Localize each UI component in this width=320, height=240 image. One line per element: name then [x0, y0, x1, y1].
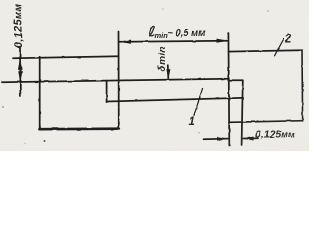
subtle vignette shading — [0, 0, 309, 151]
paper grain overlay — [0, 0, 1, 1]
left contact pad left edge — [39, 57, 41, 130]
contact pad 2 top edge — [229, 50, 303, 51]
left contact pad right edge with upward extension line for dimension — [118, 32, 120, 130]
lead (element 1) right end edge with downward extension line — [242, 80, 243, 145]
vertical dimension line 0,125 mm (left) — [19, 47, 21, 97]
contact pad 2 left edge with up and down extension lines — [227, 33, 230, 146]
faint scan smudge top right — [267, 10, 269, 12]
arrowhead of bottom dimension pointing right at lead edge — [217, 137, 228, 141]
faint speck below left pad — [24, 143, 25, 144]
lead (element 1) left end edge — [106, 81, 108, 102]
dimension line 0,125 mm (bottom) right segment — [243, 137, 259, 139]
dimension line l min ~ 0,5 mm (top) — [120, 41, 229, 42]
contact pad 2 right edge — [301, 50, 304, 121]
leader line for label 2 — [275, 39, 285, 56]
label: script l of top dimension text — [150, 26, 155, 35]
faint scan speck right of lead — [198, 132, 199, 133]
dimension line 0,125 mm (bottom) left segment — [204, 138, 228, 141]
arrowhead of left dimension pointing up — [18, 58, 22, 69]
lead (element 1) top edge overlap segment on pad 2 — [228, 79, 243, 81]
scan speck near bottom of pad 1 — [44, 140, 46, 142]
arrowhead right of top dimension pointing right — [217, 39, 229, 43]
faint speck left margin — [2, 106, 4, 108]
arrowhead of delta min leader pointing down — [166, 69, 170, 79]
contact pad 2 bottom edge — [229, 121, 303, 123]
lead (element 1) bottom edge — [107, 98, 242, 102]
faint speck above top text — [162, 8, 164, 10]
left contact pad bottom edge (thick) — [40, 127, 119, 130]
leader line for label 1 — [194, 89, 203, 116]
lead (element 1) top edge with left extension to margin — [2, 79, 229, 82]
arrowhead left of top dimension pointing left — [119, 40, 131, 44]
left contact pad (left square) top edge with left extension — [13, 56, 119, 58]
arrowhead of bottom dimension pointing left at pad edge — [242, 137, 253, 141]
leader arrow line for delta min — [167, 66, 170, 79]
arrowhead of left dimension pointing down — [18, 71, 22, 82]
